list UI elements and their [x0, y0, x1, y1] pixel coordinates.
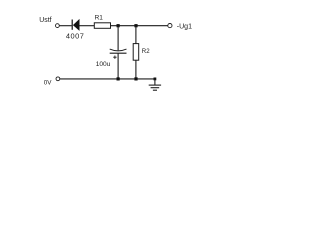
junction node B (top, R2 tap): [134, 24, 137, 27]
svg-text:R2: R2: [142, 48, 150, 55]
svg-text:4007: 4007: [66, 32, 84, 41]
wire R2 down to bottom rail: [135, 60, 137, 79]
diode D1 1N4007 (cathode bar left, anode triangle right): [72, 19, 79, 31]
wire down to ground: [154, 79, 156, 85]
resistor R2: [133, 44, 139, 61]
junction node A (top, capacitor tap): [117, 24, 120, 27]
wire node A down to capacitor: [117, 26, 119, 51]
svg-text:-Ug1: -Ug1: [177, 23, 192, 30]
wire terminal to diode: [59, 25, 71, 27]
svg-text:100u: 100u: [96, 61, 111, 68]
resistor R1: [94, 23, 110, 29]
svg-text:R1: R1: [95, 14, 104, 21]
capacitor C1 100u electrolytic: [110, 49, 127, 59]
svg-text:Ustf: Ustf: [39, 17, 51, 24]
wire node B down to R2: [135, 26, 137, 44]
junction corner to ground: [154, 78, 157, 81]
svg-text:0V: 0V: [44, 80, 53, 87]
ground: [149, 85, 161, 90]
node Ustf input terminal: [56, 24, 60, 28]
junction node C (bottom, capacitor): [117, 77, 120, 80]
node -Ug1 output terminal: [168, 24, 172, 28]
wire capacitor down to bottom rail: [117, 53, 119, 79]
bottom rail wire: [60, 78, 155, 80]
wire R1 to output terminal: [111, 25, 168, 27]
junction node D (bottom, R2): [134, 77, 137, 80]
wire diode to R1: [79, 25, 94, 27]
node 0V terminal: [56, 77, 60, 81]
